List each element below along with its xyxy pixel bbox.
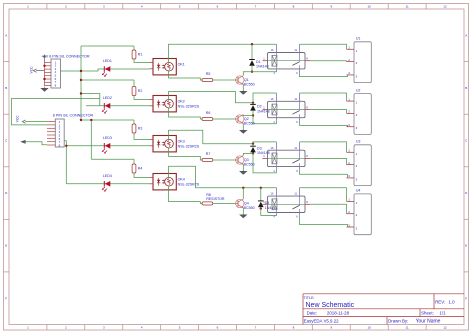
resistor R7 (202, 152, 213, 161)
wire coil- net ch2 (253, 116, 277, 124)
resistor R5 (202, 72, 213, 81)
svg-text:U2: U2 (356, 88, 360, 92)
svg-text:VCC: VCC (15, 115, 19, 123)
wire relay4 NC to U4 pin3 (300, 216, 348, 227)
svg-text:REV:: REV: (435, 300, 445, 305)
svg-text:B: B (5, 86, 7, 90)
svg-text:Q3: Q3 (244, 158, 249, 162)
svg-text:BC550: BC550 (244, 206, 255, 210)
svg-text:D3: D3 (257, 147, 262, 151)
svg-text:F: F (465, 296, 467, 300)
wire Q3 collector to D3 (243, 153, 253, 155)
svg-text:E: E (5, 244, 7, 248)
svg-text:Your Name: Your Name (416, 318, 441, 324)
node D3 cathode (252, 143, 254, 145)
svg-text:+5V 8 PIN SIL CONNECTOR: +5V 8 PIN SIL CONNECTOR (42, 55, 90, 59)
wire feed to R2 (133, 80, 135, 87)
wire feed R3 (81, 119, 134, 121)
svg-text:RESISTOR: RESISTOR (206, 197, 225, 201)
wire R2 to OK2 pin1 (134, 96, 150, 100)
svg-text:BC550: BC550 (244, 163, 255, 167)
svg-text:1N4148: 1N4148 (256, 64, 269, 68)
svg-text:Q4: Q4 (244, 202, 249, 206)
connector U3 (347, 140, 372, 186)
wire OK2 output top (169, 92, 254, 103)
svg-text:OK2: OK2 (178, 100, 185, 104)
node D3 anode (252, 152, 254, 154)
svg-text:11: 11 (406, 326, 409, 330)
svg-text:NSL-32SR2S: NSL-32SR2S (178, 105, 200, 109)
svg-text:U1: U1 (356, 37, 360, 41)
relay channel 2 (263, 93, 311, 124)
svg-text:OK3: OK3 (178, 140, 185, 144)
wire to relay2 coil stub (253, 93, 277, 103)
wire relay1 NC to U1 pin3 (300, 72, 348, 77)
node bus tap (80, 92, 82, 94)
diode D4 (258, 201, 277, 210)
svg-text:Q1: Q1 (244, 78, 249, 82)
svg-text:D1: D1 (256, 60, 261, 64)
connector U2 (347, 88, 372, 134)
connector P1 (+5V 8 PIN SIL CONNECTOR) (42, 55, 90, 88)
wire D1 cathode link (251, 44, 253, 59)
node feed R3 (80, 119, 82, 121)
wire relay2 NO to U2 pin1 (300, 93, 347, 101)
node LED3 tap (65, 145, 67, 147)
svg-text:11: 11 (406, 4, 409, 8)
ground Q4 (239, 214, 247, 219)
wire +5V bus x81 (80, 46, 82, 120)
wire relay2 COM to U2 pin2 (310, 110, 347, 114)
node D4 cathode (260, 187, 262, 189)
node bus x91 (90, 119, 92, 121)
wire P1 pin to LED1 (61, 69, 150, 71)
wire R6 to Q2 base (213, 118, 238, 120)
node D1 anode (251, 71, 253, 73)
LED LED2 (102, 96, 112, 114)
svg-text:1/1: 1/1 (440, 311, 447, 316)
optocoupler OK4 (150, 174, 200, 190)
wire D3 cathode link (252, 144, 254, 147)
wire coil- net ch1 (243, 72, 276, 76)
wire D3 anode link (252, 152, 254, 153)
wire relay1 COM to U1 pin2 (310, 60, 347, 63)
LED LED3 (102, 136, 112, 154)
wire OK1 output bottom (169, 71, 203, 80)
svg-text:Drawn By:: Drawn By: (388, 318, 408, 323)
resistor R8 (202, 193, 225, 205)
wire OK1 output top (169, 44, 277, 63)
wire relay4 coil stub down (276, 214, 278, 216)
diode D1 (249, 60, 268, 69)
svg-text:OK1: OK1 (178, 63, 185, 67)
wire D2 anode link (252, 111, 254, 116)
node D4 anode (260, 207, 262, 209)
svg-text:R1: R1 (138, 52, 143, 56)
node D1 cathode (251, 43, 253, 45)
relay channel 3 (263, 142, 311, 173)
wire relay2 NC to U2 pin3 (300, 121, 348, 127)
wire bus x91 (90, 120, 92, 159)
wire relay4 NO to U4 pin1 (300, 188, 347, 202)
net port arrow (P2 pin 8) (20, 140, 47, 145)
wire feed to R1 (133, 46, 135, 50)
node P1 pin junction (43, 78, 45, 80)
resistor R2 (132, 87, 142, 96)
wire OK3 output bottom (169, 148, 203, 160)
wire Q4 emitter to ground (242, 208, 244, 214)
svg-text:U4: U4 (356, 189, 360, 193)
svg-text:LED2: LED2 (103, 96, 112, 100)
wire relay4 COM to U4 pin2 (310, 204, 347, 213)
transistor Q3 (236, 156, 255, 167)
svg-text:12: 12 (443, 4, 447, 8)
svg-text:R4: R4 (138, 166, 143, 170)
wire LED2 drop (81, 94, 100, 106)
wire relay3 coil stub down (276, 170, 278, 173)
svg-text:R2: R2 (138, 89, 143, 93)
svg-text:R3: R3 (138, 126, 143, 130)
wire to arrow port (26, 142, 47, 145)
diode D3 (250, 146, 269, 155)
wire LED2 row (86, 105, 150, 107)
wire D4 anode link (260, 207, 262, 209)
relay channel 4 (263, 188, 311, 219)
wire Q1 emitter to ground (242, 84, 244, 90)
resistor R3 (132, 124, 142, 133)
svg-text:F: F (5, 296, 7, 300)
node P1 pin junction (43, 65, 45, 67)
svg-text:BC550: BC550 (244, 83, 255, 87)
svg-text:EasyEDA V5.9.22: EasyEDA V5.9.22 (304, 318, 339, 323)
svg-text:R5: R5 (206, 72, 211, 76)
transistor Q1 (236, 76, 255, 87)
svg-text:NSL-32SR2S: NSL-32SR2S (178, 183, 200, 187)
ground Q3 (239, 170, 247, 175)
wire R4 to OK4 pin1 (134, 173, 150, 178)
svg-text:OK4: OK4 (178, 178, 185, 182)
connector P2 (8 PIN SIL CONNECTOR) (47, 113, 94, 147)
svg-text:10: 10 (368, 4, 372, 8)
net port VCC (P1) (29, 66, 44, 74)
ground P1 (40, 87, 48, 92)
wire coil- net ch4 (261, 209, 277, 216)
wire relay3 NC to U3 pin3 (300, 170, 348, 178)
node feed R2 (80, 79, 82, 81)
optocoupler OK2 (150, 96, 200, 112)
wire LED4 row (66, 183, 149, 185)
optocoupler OK3 (150, 136, 200, 152)
wire Q3 emitter to ground (242, 164, 244, 170)
svg-text:10: 10 (368, 326, 372, 330)
svg-text:LED4: LED4 (103, 174, 112, 178)
wire R5 to Q1 base (213, 79, 238, 81)
wire relay3 NO to U3 pin1 (300, 142, 347, 152)
svg-text:LED3: LED3 (103, 136, 112, 140)
wire R3 to OK3 pin1 (134, 133, 150, 140)
node +5V junction (80, 70, 82, 72)
svg-text:R6: R6 (206, 111, 211, 115)
wire feed R4 (91, 158, 134, 160)
svg-text:1.0: 1.0 (449, 300, 456, 305)
wire coil- net ch3 (253, 153, 277, 173)
svg-text:BC550: BC550 (244, 122, 255, 126)
wire Q2 emitter to ground (242, 123, 244, 129)
power flag +5V (44, 55, 46, 62)
svg-text:LED1: LED1 (103, 59, 112, 63)
wire R7 to Q3 base (213, 159, 238, 161)
svg-text:New Schematic: New Schematic (306, 302, 355, 309)
diode D2 (250, 104, 269, 113)
title block (303, 294, 464, 325)
wire P2 pin2 loop (11, 99, 99, 125)
connector U1 (347, 37, 372, 83)
transistor Q2 (236, 115, 255, 126)
node D2 cathode (252, 102, 254, 104)
wire R8 to Q4 base (213, 203, 238, 205)
wire relay2 coil stub down (276, 121, 278, 124)
svg-text:Sheet:: Sheet: (421, 311, 434, 316)
transistor Q4 (236, 199, 255, 210)
ground Q1 (239, 90, 247, 95)
wire feed to R4 (133, 159, 135, 164)
wire LED3 row (66, 145, 149, 147)
svg-text:R7: R7 (206, 152, 211, 156)
wire relay3 COM to U3 pin2 (310, 158, 347, 164)
wire to relay3 coil stub (253, 142, 277, 144)
wire +5V rail ch1 (81, 45, 134, 47)
wire P2 feeder x66 (64, 141, 66, 184)
wire OK4 output bottom (169, 186, 203, 204)
svg-text:8 PIN SIL CONNECTOR: 8 PIN SIL CONNECTOR (53, 113, 94, 117)
wire OK4 output top (169, 166, 277, 188)
svg-text:12: 12 (443, 326, 447, 330)
wire feed R2 (81, 79, 134, 81)
ground Q2 (239, 129, 247, 134)
svg-text:A: A (465, 33, 467, 37)
svg-text:2018-11-28: 2018-11-28 (327, 311, 350, 316)
wire R1 to OK1 pin1 (134, 59, 150, 63)
net port VCC (P2) (15, 115, 47, 124)
svg-text:Date:: Date: (307, 311, 318, 316)
svg-text:U3: U3 (356, 140, 360, 144)
node Q4 collector tap (242, 187, 244, 189)
resistor R1 (132, 50, 142, 59)
LED LED4 (102, 174, 112, 192)
resistor R6 (202, 111, 213, 120)
svg-text:Q2: Q2 (244, 117, 249, 121)
wire D1 anode link (251, 66, 253, 72)
svg-text:NSL-32SR2S: NSL-32SR2S (178, 145, 200, 149)
relay channel 1 (263, 44, 311, 75)
svg-text:D2: D2 (257, 105, 262, 109)
LED LED1 (102, 59, 112, 77)
wire Q4 collector to net (242, 188, 244, 199)
wire D4 cathode link (260, 188, 262, 201)
svg-text:TITLE:: TITLE: (304, 296, 315, 300)
node D2 anode (252, 114, 254, 116)
svg-text:B: B (465, 86, 467, 90)
wire OK2 output bottom (169, 108, 203, 119)
wire OK3 output top (169, 130, 254, 144)
wire P1 left rail (44, 63, 46, 87)
wire relay1 NO to U1 pin1 (300, 44, 347, 49)
svg-text:E: E (465, 244, 467, 248)
svg-text:VCC: VCC (29, 66, 33, 74)
wire D2 cathode link (252, 103, 254, 105)
wire feed to R3 (133, 120, 135, 124)
wire Q2 collector to D2 (243, 114, 253, 117)
resistor R4 (132, 164, 142, 173)
connector U4 (347, 189, 372, 235)
svg-text:A: A (5, 33, 7, 37)
optocoupler OK1 (150, 59, 185, 75)
